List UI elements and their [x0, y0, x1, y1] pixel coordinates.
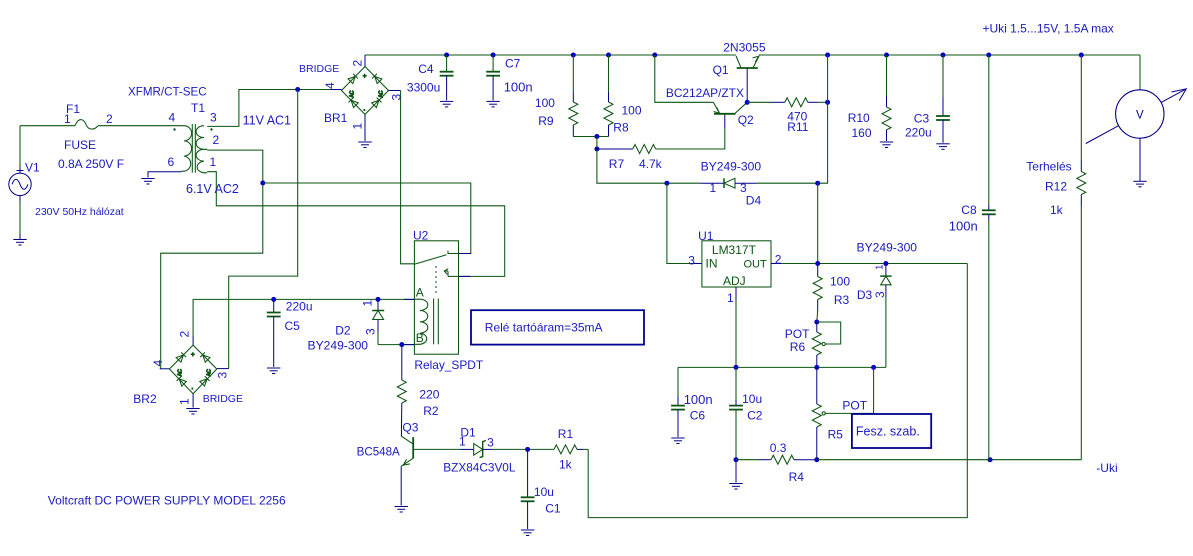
svg-text:100: 100	[622, 104, 642, 118]
svg-text:R1: R1	[558, 427, 574, 441]
svg-text:100: 100	[535, 96, 555, 110]
wire BR2 pin2 up to coil net	[192, 336, 194, 345]
node C1 junction	[525, 447, 530, 452]
svg-text:0.8A 250V F: 0.8A 250V F	[58, 157, 124, 171]
node R3 top	[815, 261, 820, 266]
svg-text:1: 1	[459, 435, 466, 449]
node R8	[606, 53, 611, 58]
svg-text:3: 3	[688, 254, 695, 268]
svg-text:3: 3	[216, 372, 230, 379]
svg-text:Terhelés: Terhelés	[1026, 159, 1071, 173]
node C4	[444, 53, 449, 58]
svg-text:T1: T1	[191, 101, 205, 115]
resistor R7	[597, 145, 656, 154]
wire relay coil B net	[378, 344, 414, 346]
svg-text:+: +	[191, 352, 195, 359]
node C8 bottom	[988, 457, 993, 462]
svg-text:BR2: BR2	[133, 392, 157, 406]
svg-text:Voltcraft DC POWER SUPPLY MODE: Voltcraft DC POWER SUPPLY MODEL 2256	[48, 494, 286, 508]
svg-text:1k: 1k	[1050, 203, 1064, 217]
svg-text:3: 3	[364, 328, 378, 335]
resistor R9	[569, 55, 578, 137]
svg-text:2: 2	[775, 253, 782, 267]
resistor R1	[554, 445, 588, 454]
wire D1 to R1	[528, 448, 554, 450]
op-amp U1 LM317T box	[702, 241, 771, 287]
wire +V top rail right segment	[759, 54, 1140, 56]
svg-text:1: 1	[64, 112, 71, 126]
wire relay coil A net	[274, 298, 415, 300]
svg-text:6.1V AC2: 6.1V AC2	[186, 182, 239, 196]
transistor Q1	[736, 56, 759, 68]
svg-text:Relé tartóáram=35mA: Relé tartóáram=35mA	[485, 321, 603, 335]
voltmeter arrowhead	[1172, 89, 1187, 101]
svg-text:C3: C3	[914, 112, 930, 126]
wire BR1 pin1 to ground	[364, 114, 366, 141]
svg-text:2: 2	[351, 60, 365, 67]
svg-text:2N3055: 2N3055	[723, 41, 766, 55]
svg-text:R8: R8	[613, 121, 629, 135]
svg-text:3300u: 3300u	[407, 81, 440, 95]
wire U1 IN pin	[691, 263, 702, 265]
wire Q3 emitter to ground	[400, 466, 402, 505]
svg-text:BY249-300: BY249-300	[308, 339, 369, 353]
resistor R8	[604, 55, 613, 137]
fuse F1	[75, 120, 98, 130]
svg-text:4.7k: 4.7k	[639, 157, 663, 171]
wire U1 ADJ pin	[735, 287, 737, 299]
svg-text:R2: R2	[423, 404, 439, 418]
capacitor C5	[267, 299, 281, 367]
transistor Q3	[401, 436, 413, 466]
svg-text:BC212AP/ZTX: BC212AP/ZTX	[666, 86, 744, 100]
svg-text:.: .	[191, 382, 193, 391]
node R7	[594, 147, 599, 152]
resistor R10	[882, 55, 891, 141]
svg-text:R4: R4	[789, 470, 805, 484]
ground below C3	[936, 144, 949, 150]
node R5 bottom R4	[814, 457, 819, 462]
wire D4 junction down to OUT	[817, 183, 819, 263]
ground below C4	[440, 101, 453, 107]
svg-text:R3: R3	[834, 293, 850, 307]
svg-text:C7: C7	[505, 57, 521, 71]
svg-text:OUT: OUT	[744, 259, 768, 271]
wire Q1 base pin	[746, 68, 748, 102]
svg-text:160: 160	[852, 126, 872, 140]
wire OUT net	[781, 263, 967, 265]
wire Q2 base pin	[724, 114, 726, 128]
svg-text:100n: 100n	[504, 80, 533, 95]
wire U1 OUT pin	[771, 263, 781, 265]
node R12	[1079, 53, 1084, 58]
relay U2	[414, 241, 458, 354]
svg-text:B: B	[416, 331, 424, 345]
source V1	[9, 173, 31, 195]
svg-text:1: 1	[727, 291, 734, 305]
node C7	[491, 53, 496, 58]
node C5 junction	[271, 297, 276, 302]
svg-text:V: V	[1136, 110, 1144, 122]
ground below Q3	[395, 507, 408, 513]
ground at BR2 pin1	[186, 409, 199, 415]
ground below C7	[486, 101, 499, 107]
svg-text:A: A	[416, 286, 424, 300]
svg-text:4: 4	[169, 111, 176, 125]
svg-text:C8: C8	[961, 203, 977, 217]
svg-text:BY249-300: BY249-300	[857, 241, 918, 255]
svg-text:R5: R5	[828, 428, 844, 442]
node D4 right junction	[815, 181, 820, 186]
ground below V1	[13, 240, 26, 246]
svg-text:Q2: Q2	[738, 113, 754, 127]
potentiometer R5	[812, 367, 873, 459]
capacitor C2	[729, 367, 743, 459]
node R2 junction	[399, 342, 404, 347]
capacitor C1	[521, 449, 535, 529]
wire T1 pin1 to relay lower contact	[207, 172, 505, 277]
node ADJ C2	[734, 365, 739, 370]
svg-text:4: 4	[323, 82, 337, 89]
svg-text:1: 1	[875, 264, 886, 270]
ground below C5	[267, 368, 280, 374]
wire T1 pin2 (6.1V AC2) down-left to BR2 pin4	[161, 150, 263, 369]
resistor R4	[736, 455, 817, 464]
svg-text:POT: POT	[842, 399, 867, 413]
transformer T1	[173, 124, 212, 173]
node R9	[571, 53, 576, 58]
ground below R10	[880, 142, 893, 148]
svg-text:3: 3	[487, 436, 494, 450]
node C8	[986, 53, 991, 58]
wire rail to Q2 emitter	[655, 55, 714, 102]
svg-text:LM317T: LM317T	[712, 243, 757, 257]
svg-text:.: .	[363, 104, 365, 113]
wire rail down to D4 net	[818, 55, 828, 183]
resistor R2	[397, 345, 406, 437]
node R11 branch	[825, 53, 830, 58]
svg-text:BZX84C3V0L: BZX84C3V0L	[443, 461, 516, 475]
voltmeter arrow line	[1086, 89, 1187, 144]
svg-text:R9: R9	[538, 114, 554, 128]
svg-text:AC: AC	[350, 90, 356, 97]
svg-text:C4: C4	[418, 62, 434, 76]
wire voltmeter top	[1139, 55, 1141, 91]
capacitor C7	[486, 55, 500, 100]
wire 11V AC1 net: T1 pin3 to BR1 pin4	[207, 90, 330, 127]
svg-text:BY249-300: BY249-300	[701, 159, 762, 173]
wire V1 bottom lead	[19, 196, 21, 202]
svg-text:2: 2	[213, 133, 220, 147]
relay pin stubs	[404, 254, 471, 345]
svg-text:10u: 10u	[534, 485, 554, 499]
svg-text:C5: C5	[285, 319, 301, 333]
wire R7 to Q2 base	[656, 128, 725, 149]
svg-text:100n: 100n	[949, 218, 978, 233]
svg-text:AC: AC	[379, 90, 385, 97]
svg-text:R10: R10	[848, 111, 870, 125]
wire BR1 pin3 to relay pole	[389, 90, 401, 92]
ground below C6	[671, 438, 684, 444]
svg-text:POT: POT	[785, 327, 810, 341]
svg-text:1: 1	[361, 300, 375, 307]
svg-text:3: 3	[390, 94, 404, 101]
resistor R12	[1077, 55, 1086, 460]
svg-text:U1: U1	[698, 229, 714, 243]
svg-text:-Uki: -Uki	[1096, 461, 1117, 475]
svg-text:R7: R7	[609, 157, 625, 171]
ground at BR1 pin1	[358, 142, 371, 148]
wire ADJ rail	[678, 366, 886, 368]
wire BR1 pin2 to +rail	[364, 55, 366, 67]
svg-text:D3: D3	[857, 288, 873, 302]
node C3	[941, 53, 946, 58]
svg-text:BRIDGE: BRIDGE	[299, 63, 339, 75]
ground at T1 pin 6	[141, 179, 154, 185]
svg-text:BC548A: BC548A	[357, 446, 400, 459]
svg-text:D4: D4	[746, 194, 762, 208]
svg-text:V1: V1	[25, 161, 40, 175]
resistor R3	[813, 264, 822, 323]
ground below C2	[729, 484, 742, 490]
svg-text:ADJ: ADJ	[723, 274, 746, 288]
node R10	[884, 53, 889, 58]
wire Q3 base to D1	[413, 448, 460, 450]
svg-text:U2: U2	[413, 229, 429, 243]
node R5 wiper	[871, 365, 876, 370]
wire OUT drop to bottom wire	[588, 264, 967, 518]
wire C2 to ground	[735, 460, 737, 483]
svg-text:2: 2	[178, 331, 192, 338]
svg-text:100n: 100n	[684, 392, 713, 407]
wire fuse to T1 pin 4	[98, 125, 184, 127]
node D3 top	[883, 261, 888, 266]
diode D1 zener	[460, 441, 528, 458]
node 6.1V AC2 tap junction	[260, 181, 265, 186]
annotation box Fesz	[852, 414, 931, 448]
wire D4 net horizontal	[597, 149, 701, 183]
svg-text:1k: 1k	[559, 458, 573, 472]
ground below voltmeter	[1133, 181, 1146, 187]
svg-text:220: 220	[419, 388, 439, 402]
svg-text:XFMR/CT-SEC: XFMR/CT-SEC	[128, 86, 207, 99]
svg-text:C6: C6	[690, 409, 706, 423]
node Q2 emitter branch	[652, 53, 657, 58]
svg-text:6: 6	[168, 155, 175, 169]
svg-text:11V AC1: 11V AC1	[243, 114, 291, 128]
wire R9 to R8 junction	[573, 136, 608, 138]
svg-text:220u: 220u	[905, 125, 932, 139]
svg-text:2: 2	[106, 112, 113, 126]
svg-text:100: 100	[830, 275, 850, 289]
capacitor C6	[671, 367, 685, 437]
svg-text:R12: R12	[1045, 179, 1067, 193]
wire 6.1V AC2 to relay upper contact	[263, 183, 471, 254]
svg-text:+: +	[363, 73, 367, 80]
capacitor C3	[936, 55, 950, 143]
wire T1 pin 6 to ground	[148, 172, 181, 178]
svg-text:R11: R11	[787, 120, 808, 134]
wire voltmeter bottom	[1139, 138, 1141, 181]
svg-text:10u: 10u	[742, 392, 762, 406]
node R6 bottom R5 top	[814, 365, 819, 370]
annotation box Rele	[471, 310, 644, 344]
wire IN branch down to U1	[667, 183, 691, 263]
svg-text:4: 4	[151, 360, 165, 367]
node Q1 base junction	[745, 100, 750, 105]
svg-text:Fesz. szab.: Fesz. szab.	[856, 425, 920, 439]
svg-text:BR1: BR1	[324, 111, 348, 125]
svg-text:IN: IN	[706, 257, 718, 271]
svg-text:Q1: Q1	[713, 63, 729, 77]
svg-text:0.3: 0.3	[770, 441, 787, 455]
potentiometer R6	[812, 322, 840, 367]
diode D4	[701, 178, 818, 188]
transistor Q2	[713, 102, 747, 114]
bridge BR2	[169, 345, 216, 394]
node IN branch	[664, 181, 669, 186]
wire +V top rail left segment	[365, 54, 736, 56]
node R6 top junction	[814, 320, 819, 325]
resistor R11	[747, 98, 827, 107]
svg-text:C1: C1	[545, 502, 561, 516]
node R8 R9 junction	[594, 134, 599, 139]
svg-text:3: 3	[873, 291, 887, 298]
svg-text:Q3: Q3	[402, 421, 418, 435]
svg-text:220u: 220u	[286, 300, 313, 314]
svg-text:C2: C2	[747, 409, 763, 423]
ground below C1	[521, 530, 534, 536]
diode D3	[880, 264, 891, 368]
node C2 ground junction	[734, 457, 739, 462]
wire mains top from V1 to fuse	[20, 125, 75, 127]
wire ADJ pin down to ADJ rail	[735, 299, 737, 367]
svg-text:Relay_SPDT: Relay_SPDT	[414, 358, 483, 372]
wire 11V AC1 branch down to BR2 pin3	[229, 90, 298, 369]
svg-text:AC: AC	[178, 369, 184, 376]
svg-text:D2: D2	[335, 324, 351, 338]
voltmeter V	[1116, 90, 1164, 138]
diode D2	[372, 299, 384, 344]
wire -Uki rail	[817, 459, 1082, 461]
svg-text:230V 50Hz hálózat: 230V 50Hz hálózat	[35, 206, 124, 218]
svg-text:FUSE: FUSE	[64, 138, 96, 152]
node R11 right junction	[825, 100, 830, 105]
capacitor C4	[440, 55, 454, 100]
bridge BR1	[342, 67, 389, 115]
wire BR2 pin1 to ground	[192, 394, 194, 408]
svg-text:1: 1	[351, 123, 365, 130]
svg-text:3: 3	[210, 111, 217, 125]
svg-text:1: 1	[710, 181, 717, 195]
svg-text:1: 1	[178, 398, 192, 405]
svg-text:+Uki 1.5...15V, 1.5A max: +Uki 1.5...15V, 1.5A max	[983, 22, 1114, 36]
wire junction down to R7 node	[596, 137, 598, 150]
svg-text:BRIDGE: BRIDGE	[203, 393, 243, 405]
node 11V AC1 junction	[295, 87, 300, 92]
node D2 anode junction	[376, 297, 381, 302]
wire C8 line	[982, 55, 996, 460]
svg-text:R6: R6	[790, 340, 806, 354]
wire V1 top lead	[19, 126, 21, 167]
svg-text:1: 1	[210, 155, 217, 169]
svg-text:AC: AC	[207, 369, 213, 376]
